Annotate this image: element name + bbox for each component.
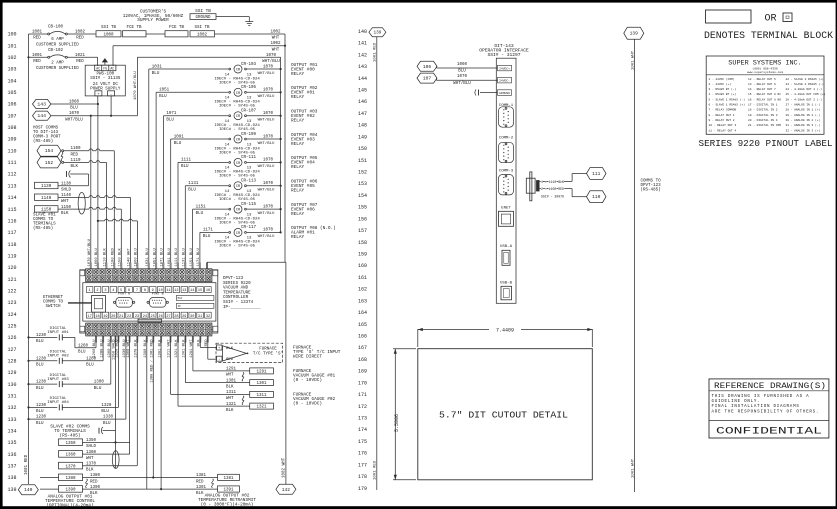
svg-text:1171: 1171	[203, 229, 214, 233]
svg-text:RED: RED	[226, 358, 234, 362]
svg-text:IP-____________: IP-____________	[223, 306, 261, 310]
svg-text:BLK: BLK	[196, 492, 204, 496]
svg-text:1350: 1350	[65, 442, 76, 446]
wire 1060 branch row 116	[97, 220, 99, 222]
terminal row 17-32	[86, 312, 93, 318]
right rail 1001 WHT	[634, 39, 636, 492]
svg-text:115: 115	[7, 207, 16, 213]
svg-text:119: 119	[7, 253, 16, 259]
svg-text:175: 175	[358, 439, 367, 445]
svg-text:BLK: BLK	[86, 469, 94, 473]
svg-text:6 - SLAVE 1 RS485 (+): 6 - SLAVE 1 RS485 (+)	[709, 103, 746, 107]
svg-text:22: 22	[127, 315, 131, 319]
terminal block 1311	[250, 391, 274, 397]
wire 1171 BLU drop	[199, 232, 201, 268]
svg-text:WHT: WHT	[86, 457, 94, 461]
svg-text:COMMS TO: COMMS TO	[641, 180, 662, 184]
svg-text:1070: 1070	[266, 54, 277, 58]
svg-text:1070: 1070	[263, 205, 274, 209]
svg-text:1051: 1051	[159, 89, 170, 93]
svg-text:1301 BLK: 1301 BLK	[183, 339, 187, 358]
wire 1111 BLU drop	[177, 162, 179, 268]
relay right rail 1070	[280, 57, 282, 232]
svg-text:31: 31	[198, 315, 202, 319]
svg-text:166: 166	[358, 334, 367, 340]
relay rung CR-107	[163, 115, 228, 117]
svg-text:174: 174	[358, 427, 367, 433]
relay rung CR-115	[193, 208, 229, 210]
svg-text:(0 - 3000°F)(4-20mA): (0 - 3000°F)(4-20mA)	[201, 503, 254, 508]
svg-text:AC: AC	[96, 67, 100, 71]
svg-text:140: 140	[358, 29, 367, 35]
svg-text:106: 106	[7, 102, 16, 108]
svg-text:WHT/BLU: WHT/BLU	[258, 71, 275, 76]
T/C wires	[200, 347, 216, 349]
svg-text:1070: 1070	[69, 112, 80, 116]
svg-text:RED: RED	[33, 60, 41, 64]
svg-text:RED: RED	[196, 480, 204, 484]
svg-text:30: 30	[190, 315, 194, 319]
svg-text:1230: 1230	[36, 334, 47, 338]
svg-text:21 - DIGITAL IN COM: 21 - DIGITAL IN COM	[748, 124, 781, 127]
svg-text:1370: 1370	[65, 465, 76, 469]
svg-text:12 - RELAY OUT 5: 12 - RELAY OUT 5	[748, 78, 776, 81]
reference drawings box	[709, 379, 829, 438]
svg-text:1311: 1311	[226, 391, 237, 395]
svg-text:1380: 1380	[65, 477, 76, 481]
wire 1360 WHT	[83, 453, 130, 455]
svg-text:17: 17	[87, 315, 91, 319]
svg-text:5 - SLAVE 1 RS485 (-): 5 - SLAVE 1 RS485 (-)	[709, 97, 746, 101]
cable oval rows 113-115	[78, 192, 85, 214]
T/C + terminal	[217, 345, 222, 350]
svg-text:1031: 1031	[152, 65, 163, 69]
svg-text:IDEC# - SY4S-05: IDEC# - SY4S-05	[219, 221, 256, 225]
svg-text:1321: 1321	[256, 406, 267, 410]
relay rung CR-111	[178, 161, 228, 163]
relay coil CR	[234, 158, 242, 166]
svg-text:12: 12	[174, 289, 178, 293]
bottom tab	[138, 319, 162, 322]
svg-text:BLK: BLK	[71, 165, 79, 169]
svg-text:108: 108	[7, 125, 16, 131]
svg-text:RED: RED	[33, 37, 41, 41]
svg-text:CB-102: CB-102	[48, 49, 64, 53]
svg-text:26: 26	[158, 315, 162, 319]
wire 1002 WHT vertical bus	[284, 34, 286, 262]
wire row100 gap	[146, 33, 165, 35]
svg-text:1151: 1151	[196, 205, 207, 209]
svg-text:1380 RED / 1381 RED: 1380 RED / 1381 RED	[150, 339, 155, 383]
svg-text:SHLD: SHLD	[61, 189, 72, 193]
cable oval slave2	[112, 451, 119, 469]
analog wire 1390 BLK	[40, 488, 59, 490]
svg-text:7.4409: 7.4409	[496, 327, 514, 333]
svg-text:27: 27	[166, 315, 170, 319]
svg-text:154: 154	[358, 193, 367, 199]
top terminal block	[86, 269, 212, 282]
middle rail 1001 RED	[376, 37, 378, 490]
PWS - terminal	[108, 91, 115, 96]
svg-text:SERIES 9220 PINOUT LABEL: SERIES 9220 PINOUT LABEL	[699, 138, 833, 149]
terminal block 1390	[59, 486, 83, 493]
svg-text:1320: 1320	[101, 404, 112, 408]
gauge wire 1291 WHT	[193, 370, 250, 372]
wire 1370 BLK	[83, 465, 138, 467]
terminal block 1360	[59, 451, 83, 458]
svg-text:THIS DRAWING IS FURNISHED AS A: THIS DRAWING IS FURNISHED AS A	[712, 395, 810, 399]
svg-text:125: 125	[7, 323, 16, 329]
svg-text:32 - ANALOG IN 3 (+): 32 - ANALOG IN 3 (+)	[786, 128, 821, 132]
svg-text:1311: 1311	[256, 394, 267, 398]
svg-text:30 - ANALOG IN 2 (+): 30 - ANALOG IN 2 (+)	[786, 118, 821, 122]
svg-text:OR: OR	[764, 13, 776, 24]
svg-text:8: 8	[144, 289, 146, 293]
svg-text:137: 137	[7, 464, 16, 470]
terminal block 1321	[250, 403, 274, 409]
svg-text:SLAVE #01: SLAVE #01	[33, 214, 56, 218]
svg-text:22 - SLAVE 2 RS485 (+): 22 - SLAVE 2 RS485 (+)	[786, 77, 824, 81]
svg-text:169: 169	[358, 369, 367, 375]
svg-text:WHT/BLU: WHT/BLU	[258, 94, 275, 99]
svg-text:28 - ANALOG IN 1 (+): 28 - ANALOG IN 1 (+)	[786, 108, 821, 112]
svg-text:ARE THE RESPONSIBILITY OF OTHE: ARE THE RESPONSIBILITY OF OTHERS.	[712, 410, 820, 414]
svg-text:1360 WHT: 1360 WHT	[127, 339, 131, 358]
svg-text:VACUUM AND: VACUUM AND	[223, 287, 249, 291]
svg-text:IDEC# - SY4S-05: IDEC# - SY4S-05	[219, 198, 256, 202]
node 106 hexagon	[417, 61, 437, 71]
svg-text:7 - RELAY COMMON: 7 - RELAY COMMON	[709, 109, 737, 112]
svg-text:RELAY: RELAY	[291, 72, 305, 77]
svg-text:144: 144	[358, 76, 367, 82]
svg-text:CR-107: CR-107	[241, 110, 257, 114]
terminal 24VDC-	[498, 77, 512, 83]
terminal block 1130	[35, 182, 59, 188]
svg-text:116: 116	[7, 218, 16, 224]
svg-text:7: 7	[136, 289, 138, 293]
wire 1002 WHT row 101	[113, 45, 285, 47]
wire to node 111	[540, 180, 573, 182]
svg-text:SUPPLY POWER: SUPPLY POWER	[137, 18, 169, 23]
svg-text:1150: 1150	[61, 206, 72, 210]
svg-text:BLK: BLK	[226, 409, 234, 413]
svg-text:171: 171	[358, 392, 367, 398]
svg-text:1001: 1001	[32, 31, 43, 35]
relay coil CR	[234, 88, 242, 96]
svg-text:160: 160	[358, 263, 367, 269]
svg-text:FCE TB: FCE TB	[126, 26, 142, 30]
wire sleeves top	[90, 263, 92, 272]
svg-text:1130: 1130	[41, 185, 52, 189]
svg-text:146: 146	[358, 99, 367, 105]
svg-text:BLK: BLK	[226, 385, 234, 389]
svg-text:151: 151	[358, 158, 367, 164]
svg-text:INPUT #02: INPUT #02	[47, 355, 69, 359]
svg-text:165: 165	[358, 322, 367, 328]
wire 1051 BLU drop	[155, 92, 157, 268]
svg-text:2: 2	[96, 289, 98, 293]
svg-text:101: 101	[7, 43, 16, 49]
svg-text:(RS-485): (RS-485)	[59, 434, 80, 439]
svg-text:SSI TB: SSI TB	[194, 26, 210, 30]
svg-text:29: 29	[182, 315, 186, 319]
svg-text:3 - RS485 BT (-): 3 - RS485 BT (-)	[709, 87, 737, 91]
svg-text:BLU: BLU	[166, 119, 174, 123]
left power rail 1001 RED	[28, 34, 30, 484]
svg-text:149: 149	[358, 134, 367, 140]
svg-text:129: 129	[7, 370, 16, 376]
svg-text:GUIDELINE ONLY.: GUIDELINE ONLY.	[712, 400, 761, 404]
svg-text:INPUT #04: INPUT #04	[47, 401, 69, 405]
node 143 hexagon	[33, 99, 51, 108]
svg-text:T/C TYPE 'S': T/C TYPE 'S'	[253, 351, 283, 356]
svg-text:131: 131	[7, 394, 16, 400]
svg-text:107: 107	[423, 76, 432, 82]
svg-text:WHT: WHT	[226, 397, 234, 401]
terminal block 1291	[250, 368, 274, 374]
svg-text:RELAY: RELAY	[291, 165, 305, 170]
shield drain symbol row 112	[66, 171, 68, 177]
svg-text:1111: 1111	[181, 159, 192, 163]
svg-text:173: 173	[358, 416, 367, 422]
svg-text:WHT: WHT	[272, 48, 280, 52]
svg-text:167: 167	[358, 345, 367, 351]
svg-text:147: 147	[358, 111, 367, 117]
svg-text:BLU: BLU	[103, 422, 111, 426]
svg-text:178: 178	[358, 474, 367, 480]
svg-text:13 - RELAY OUT 6: 13 - RELAY OUT 6	[748, 83, 776, 86]
thermocouple dashed enclosure	[216, 343, 283, 362]
svg-text:(RS-485): (RS-485)	[33, 139, 53, 144]
svg-text:118: 118	[7, 242, 16, 248]
svg-text:GROUND: GROUND	[499, 92, 510, 95]
relay coil CR	[234, 65, 242, 73]
svg-text:DPVT-123: DPVT-123	[641, 184, 662, 188]
svg-text:CR-111: CR-111	[241, 156, 257, 160]
svg-text:1280: 1280	[86, 357, 97, 361]
svg-text:27 - ANALOG IN 1 (-): 27 - ANALOG IN 1 (-)	[786, 103, 821, 107]
svg-text:1001 RED: 1001 RED	[374, 460, 378, 480]
gauge wire 1321 BLK	[178, 405, 250, 407]
svg-text:REFERENCE DRAWING(S): REFERENCE DRAWING(S)	[714, 381, 826, 391]
svg-text:152: 152	[358, 170, 367, 176]
wire 1131 BLU drop	[184, 186, 186, 269]
node 139 hexagon right	[624, 27, 644, 39]
border frame	[0, 0, 837, 3]
svg-text:1230: 1230	[36, 381, 47, 385]
contact	[58, 358, 60, 364]
svg-text:CR-105: CR-105	[241, 86, 257, 90]
shield drain symbol slave 2	[98, 428, 100, 434]
wire 1070 WHT/BLU to DIT	[436, 78, 438, 80]
svg-text:BLU: BLU	[196, 212, 204, 216]
svg-text:148: 148	[358, 123, 367, 129]
svg-text:-: -	[218, 358, 220, 362]
svg-text:124: 124	[7, 312, 16, 318]
terminal block 1140	[35, 194, 59, 200]
svg-text:23: 23	[135, 315, 139, 319]
svg-text:CUSTOMER SUPPLIED: CUSTOMER SUPPLIED	[36, 44, 79, 48]
svg-text:2 - 24VDC (+): 2 - 24VDC (+)	[709, 82, 732, 86]
svg-text:CR-117: CR-117	[241, 226, 257, 230]
gauge wire 1311 WHT	[171, 393, 250, 395]
svg-text:117: 117	[7, 230, 16, 236]
relay rung CR-105	[156, 91, 228, 93]
svg-text:162: 162	[358, 287, 367, 293]
terminal GROUND	[498, 90, 512, 96]
node 110 hexagon	[587, 191, 607, 203]
svg-text:ETHERNET: ETHERNET	[43, 296, 64, 300]
svg-text:1301: 1301	[256, 382, 267, 386]
svg-text:WHT/BLU: WHT/BLU	[258, 164, 275, 169]
svg-text:1002 WHT: 1002 WHT	[283, 457, 287, 478]
svg-text:SSI TB: SSI TB	[101, 26, 117, 30]
svg-text:INPUT #03: INPUT #03	[47, 378, 69, 382]
svg-text:25: 25	[151, 315, 155, 319]
wire bundle verticals into controller top	[90, 116, 92, 269]
wire 1002 RED	[68, 33, 96, 35]
svg-text:WHT/BLU: WHT/BLU	[262, 59, 280, 64]
svg-text:1230: 1230	[36, 416, 47, 420]
svg-text:WHT/BLU: WHT/BLU	[453, 81, 471, 86]
svg-text:1 - 24VDC (COM): 1 - 24VDC (COM)	[709, 77, 735, 81]
svg-text:1070: 1070	[263, 159, 274, 163]
svg-text:SSI TB: SSI TB	[195, 9, 211, 14]
svg-text:110: 110	[7, 148, 16, 154]
wire 1140 WHT	[58, 196, 130, 198]
node 139 hexagon middle	[369, 28, 386, 37]
svg-text:CR-113: CR-113	[241, 180, 257, 184]
svg-text:BLK: BLK	[61, 212, 69, 216]
wire 1150 BLK	[58, 208, 121, 210]
svg-text:19 - DIGITAL IN 3: 19 - DIGITAL IN 3	[748, 114, 778, 117]
svg-text:1070 WHT/BLU: 1070 WHT/BLU	[133, 71, 138, 100]
svg-text:161: 161	[358, 275, 367, 281]
svg-text:BLU: BLU	[159, 95, 167, 99]
svg-text:DPVT-123: DPVT-123	[223, 277, 244, 281]
wire 1130 SHLD	[58, 185, 89, 187]
svg-text:COMM-3 PORT: COMM-3 PORT	[33, 136, 61, 140]
svg-text:1001 WHT: 1001 WHT	[631, 458, 635, 478]
rail junction dots	[27, 56, 29, 58]
terminal block 1301	[250, 380, 274, 386]
label plate MAC	[176, 296, 214, 301]
svg-text:1070: 1070	[263, 182, 274, 186]
svg-text:1370: 1370	[86, 463, 97, 467]
svg-text:136: 136	[7, 452, 16, 458]
COMM-3 mating connector	[526, 178, 535, 193]
svg-text:1070: 1070	[263, 89, 274, 93]
wire 1070 WHT/BLU row 107	[51, 115, 137, 117]
wire 1110 BLK row 111	[62, 161, 64, 163]
svg-text:RED: RED	[205, 339, 209, 347]
svg-text:CR-109: CR-109	[241, 133, 257, 137]
svg-text:1320 BLU: 1320 BLU	[116, 339, 120, 358]
terminal block 1370	[59, 462, 83, 469]
relay rung CR-103	[149, 68, 229, 70]
svg-text:BLU: BLU	[86, 364, 94, 368]
svg-text:1260 BLU: 1260 BLU	[93, 339, 97, 358]
svg-text:1391 BLK: 1391 BLK	[158, 339, 162, 358]
svg-text:1021: 1021	[75, 54, 86, 58]
svg-text:139: 139	[630, 31, 639, 37]
wire 1021 RED	[68, 56, 98, 58]
svg-text:1300: 1300	[94, 381, 105, 385]
svg-text:142: 142	[282, 487, 291, 493]
svg-text:SSI# - 31135: SSI# - 31135	[90, 77, 121, 81]
wire 1002 WHT to node 142	[206, 262, 208, 269]
svg-text:1150: 1150	[41, 209, 52, 213]
node 154 hexagon	[37, 145, 61, 156]
PWS + terminal	[95, 91, 102, 96]
svg-text:143: 143	[37, 102, 46, 108]
svg-text:11 - RELAY OUT 4: 11 - RELAY OUT 4	[709, 129, 737, 132]
svg-text:109: 109	[7, 137, 16, 143]
svg-text:132: 132	[7, 405, 16, 411]
svg-text:164: 164	[358, 310, 367, 316]
relay rung CR-109	[171, 138, 229, 140]
svg-text:168: 168	[358, 357, 367, 363]
svg-text:1311 WHT: 1311 WHT	[168, 339, 172, 358]
node 144 hexagon	[33, 111, 51, 120]
analog wire 1380 RED	[40, 477, 59, 479]
svg-text:(0 - 10VDC): (0 - 10VDC)	[293, 378, 322, 383]
svg-text:9 - RELAY OUT 2: 9 - RELAY OUT 2	[709, 119, 735, 122]
svg-text:1230: 1230	[36, 404, 47, 408]
frame ground arrow	[103, 59, 108, 65]
svg-text:WHT/BLU: WHT/BLU	[65, 117, 83, 122]
svg-text:156: 156	[358, 216, 367, 222]
svg-text:19: 19	[103, 315, 107, 319]
relay coil CR	[234, 182, 242, 190]
svg-text:RELAY: RELAY	[291, 119, 305, 124]
svg-text:RED: RED	[71, 153, 79, 157]
svg-text:20: 20	[111, 315, 115, 319]
svg-text:FCE TB: FCE TB	[169, 26, 185, 30]
svg-text:DENOTES TERMINAL BLOCK: DENOTES TERMINAL BLOCK	[704, 30, 833, 41]
svg-text:139: 139	[7, 487, 16, 493]
svg-text:15: 15	[198, 289, 202, 293]
svg-text:1321 BLK: 1321 BLK	[175, 339, 179, 358]
terminal block 1391	[218, 486, 240, 492]
svg-text:10 - RELAY OUT 3: 10 - RELAY OUT 3	[709, 124, 737, 127]
terminal block 1381	[218, 474, 240, 480]
controller body DPVT-123	[83, 283, 216, 321]
svg-text:1002: 1002	[270, 42, 281, 46]
svg-text:13: 13	[182, 289, 186, 293]
terminal block 1150	[35, 206, 59, 212]
contact	[58, 381, 60, 387]
svg-text:21: 21	[119, 315, 123, 319]
node 111 hexagon	[587, 168, 607, 180]
svg-text:www.supersystems.com: www.supersystems.com	[747, 71, 783, 74]
dimension 7.4409	[417, 329, 419, 347]
svg-text:1100: 1100	[71, 147, 82, 151]
svg-text:BLU: BLU	[78, 351, 86, 355]
svg-text:1321: 1321	[226, 403, 237, 407]
svg-text:1381: 1381	[196, 474, 207, 478]
svg-text:1360: 1360	[65, 454, 76, 458]
wire 1071 BLU drop	[162, 116, 164, 269]
twisted pair symbol rows 110-111	[61, 152, 63, 161]
controller mounting plate	[80, 270, 218, 333]
svg-text:1110: 1110	[71, 159, 82, 163]
svg-text:1070: 1070	[263, 112, 274, 116]
svg-text:1291: 1291	[226, 368, 237, 372]
svg-text:18 - DIGITAL IN 2: 18 - DIGITAL IN 2	[748, 109, 778, 112]
svg-text:113: 113	[7, 183, 16, 189]
svg-text:172: 172	[358, 404, 367, 410]
